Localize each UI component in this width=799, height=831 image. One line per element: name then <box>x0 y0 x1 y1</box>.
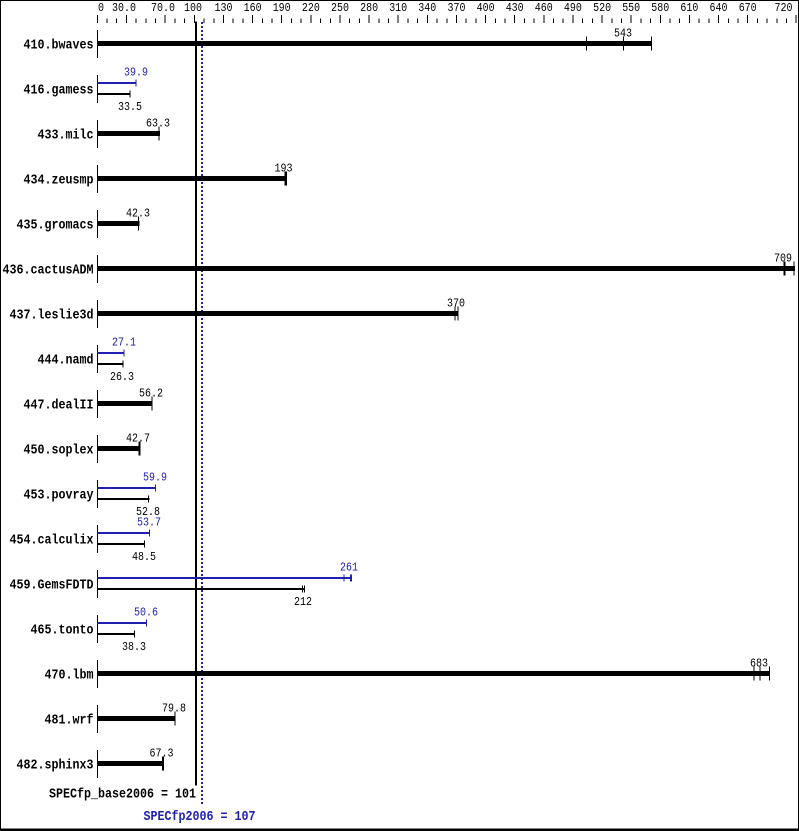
base bar 436.cactusADM = 709 <box>97 266 795 271</box>
row axis spine 453.povray <box>97 480 98 508</box>
svg-text:0: 0 <box>98 2 104 15</box>
axis tick marks <box>97 15 98 23</box>
svg-text:59.9: 59.9 <box>143 472 167 485</box>
svg-text:610: 610 <box>680 2 698 15</box>
base bar 435.gromacs = 42.3 <box>97 221 140 226</box>
row axis spine 482.sphinx3 <box>97 750 98 778</box>
svg-text:454.calculix: 454.calculix <box>10 532 94 548</box>
base bar 410.bwaves = 543 <box>97 41 652 46</box>
row axis spine 416.gamess <box>97 75 98 103</box>
peak bar 444.namd = 27.1 <box>97 352 125 354</box>
svg-text:70.0: 70.0 <box>151 2 175 15</box>
svg-text:430: 430 <box>506 2 524 15</box>
row axis spine 434.zeusmp <box>97 165 98 193</box>
peak bar 416.gamess = 39.9 <box>97 82 137 84</box>
svg-text:370: 370 <box>448 2 466 15</box>
svg-text:30.0: 30.0 <box>112 2 136 15</box>
svg-text:370: 370 <box>447 298 465 311</box>
row axis spine 410.bwaves <box>97 30 98 58</box>
svg-text:416.gamess: 416.gamess <box>24 82 94 98</box>
base bar 482.sphinx3 = 67.3 <box>97 761 164 766</box>
peak bar 454.calculix = 53.7 <box>97 532 150 534</box>
base bar 470.lbm = 683 <box>97 671 770 676</box>
base bar 453.povray = 52.8 <box>97 498 150 500</box>
svg-text:460: 460 <box>535 2 553 15</box>
svg-text:100: 100 <box>184 2 202 15</box>
svg-text:433.milc: 433.milc <box>38 127 94 143</box>
svg-text:436.cactusADM: 436.cactusADM <box>3 262 94 278</box>
svg-text:261: 261 <box>340 562 358 575</box>
chart border frame <box>0 0 799 1</box>
svg-text:453.povray: 453.povray <box>24 487 94 503</box>
svg-text:435.gromacs: 435.gromacs <box>17 217 94 233</box>
svg-text:130: 130 <box>215 2 233 15</box>
svg-text:SPECfp2006 = 107: SPECfp2006 = 107 <box>144 809 256 825</box>
svg-text:39.9: 39.9 <box>124 67 148 80</box>
svg-text:490: 490 <box>564 2 582 15</box>
base bar 481.wrf = 79.8 <box>97 716 176 721</box>
svg-text:160: 160 <box>244 2 262 15</box>
svg-text:670: 670 <box>739 2 757 15</box>
base bar 447.dealII = 56.2 <box>97 401 153 406</box>
base bar 437.leslie3d = 370 <box>97 311 459 316</box>
peak bar 459.GemsFDTD = 261 <box>97 577 352 579</box>
svg-text:683: 683 <box>750 658 768 671</box>
svg-text:42.7: 42.7 <box>126 433 150 446</box>
base bar 416.gamess = 33.5 <box>97 93 131 95</box>
svg-text:79.8: 79.8 <box>162 703 186 716</box>
svg-text:50.6: 50.6 <box>134 607 158 620</box>
row axis spine 437.leslie3d <box>97 300 98 328</box>
svg-text:67.3: 67.3 <box>150 748 174 761</box>
svg-text:481.wrf: 481.wrf <box>45 712 94 728</box>
svg-text:447.dealII: 447.dealII <box>24 397 94 413</box>
svg-text:38.3: 38.3 <box>122 641 146 654</box>
svg-text:33.5: 33.5 <box>118 101 142 114</box>
svg-text:310: 310 <box>389 2 407 15</box>
svg-text:640: 640 <box>710 2 728 15</box>
peak bar 453.povray = 59.9 <box>97 487 156 489</box>
svg-text:56.2: 56.2 <box>139 388 163 401</box>
svg-text:27.1: 27.1 <box>112 337 136 350</box>
svg-text:550: 550 <box>622 2 640 15</box>
svg-text:543: 543 <box>614 28 632 41</box>
base bar 454.calculix = 48.5 <box>97 543 145 545</box>
svg-text:437.leslie3d: 437.leslie3d <box>10 307 94 323</box>
svg-text:720: 720 <box>775 2 793 15</box>
svg-text:580: 580 <box>651 2 669 15</box>
svg-text:48.5: 48.5 <box>132 551 156 564</box>
row axis spine 465.tonto <box>97 615 98 643</box>
svg-text:53.7: 53.7 <box>137 517 161 530</box>
base bar 459.GemsFDTD = 212 <box>97 588 305 590</box>
svg-text:220: 220 <box>302 2 320 15</box>
svg-text:444.namd: 444.namd <box>38 352 94 368</box>
svg-text:340: 340 <box>418 2 436 15</box>
row axis spine 454.calculix <box>97 525 98 553</box>
row axis spine 459.GemsFDTD <box>97 570 98 598</box>
svg-text:450.soplex: 450.soplex <box>24 442 94 458</box>
svg-text:SPECfp_base2006 = 101: SPECfp_base2006 = 101 <box>49 787 196 803</box>
svg-text:482.sphinx3: 482.sphinx3 <box>17 757 94 773</box>
row axis spine 470.lbm <box>97 660 98 688</box>
svg-text:465.tonto: 465.tonto <box>31 622 94 638</box>
svg-text:63.3: 63.3 <box>146 118 170 131</box>
row axis spine 435.gromacs <box>97 210 98 238</box>
svg-text:520: 520 <box>593 2 611 15</box>
svg-text:193: 193 <box>275 163 293 176</box>
base bar 450.soplex = 42.7 <box>97 446 141 451</box>
svg-text:280: 280 <box>360 2 378 15</box>
svg-text:410.bwaves: 410.bwaves <box>24 37 94 53</box>
base bar 434.zeusmp = 193 <box>97 176 287 181</box>
row axis spine 450.soplex <box>97 435 98 463</box>
svg-text:400: 400 <box>477 2 495 15</box>
svg-text:709: 709 <box>774 253 792 266</box>
base bar 433.milc = 63.3 <box>97 131 160 136</box>
svg-text:42.3: 42.3 <box>126 208 150 221</box>
peak reference dotted line at 107 <box>201 22 203 806</box>
svg-text:434.zeusmp: 434.zeusmp <box>24 172 94 188</box>
svg-text:190: 190 <box>273 2 291 15</box>
base bar 444.namd = 26.3 <box>97 363 124 365</box>
svg-text:459.GemsFDTD: 459.GemsFDTD <box>10 577 94 593</box>
peak bar 465.tonto = 50.6 <box>97 622 147 624</box>
row axis spine 436.cactusADM <box>97 255 98 283</box>
base bar 465.tonto = 38.3 <box>97 633 135 635</box>
svg-text:26.3: 26.3 <box>110 371 134 384</box>
row axis spine 481.wrf <box>97 705 98 733</box>
row axis spine 444.namd <box>97 345 98 373</box>
row axis spine 447.dealII <box>97 390 98 418</box>
svg-text:470.lbm: 470.lbm <box>45 667 94 683</box>
svg-text:212: 212 <box>294 596 312 609</box>
base reference line at 101 <box>195 22 197 786</box>
svg-text:250: 250 <box>331 2 349 15</box>
row axis spine 433.milc <box>97 120 98 148</box>
